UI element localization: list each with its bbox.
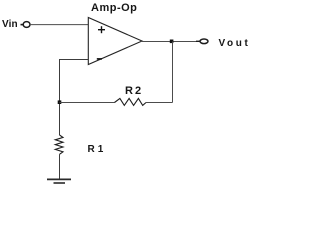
ground <box>47 179 71 183</box>
wire op-amp output <box>142 41 198 43</box>
wire junction to R2 left lead <box>60 102 115 104</box>
svg-text:R2: R2 <box>125 85 143 97</box>
terminal Vout <box>196 39 208 44</box>
wire R2 right lead up to output node <box>146 102 173 104</box>
resistor R1 <box>55 135 63 154</box>
svg-text:Vin: Vin <box>2 19 18 30</box>
terminal Vin <box>21 22 31 28</box>
op-amp plus symbol <box>98 26 105 33</box>
node output junction <box>170 40 174 44</box>
svg-text:Amp-Op: Amp-Op <box>91 2 137 14</box>
wire output node down to R2 <box>172 42 174 103</box>
wire Vin to op-amp + input <box>30 24 88 26</box>
svg-text:Vout: Vout <box>219 38 251 49</box>
svg-text:R 1: R 1 <box>88 144 104 155</box>
resistor R2 <box>115 98 147 105</box>
wire feedback to minus input <box>60 60 89 136</box>
wire R1 to ground <box>59 154 61 179</box>
node feedback junction <box>58 100 62 104</box>
op-amp minus symbol <box>97 58 102 60</box>
op-amp U1 <box>88 18 142 65</box>
